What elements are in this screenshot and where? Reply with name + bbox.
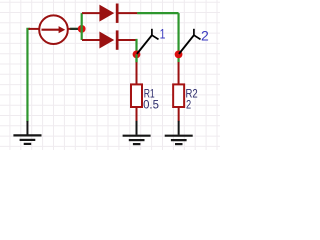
switch S1 bbox=[137, 29, 159, 54]
resistor R2 bbox=[173, 84, 184, 107]
R1 pin bottom bbox=[136, 107, 138, 121]
wire node C to R2 bbox=[178, 62, 180, 84]
node B junction bbox=[133, 51, 141, 59]
svg-text:2: 2 bbox=[201, 28, 209, 44]
ground G1 bbox=[13, 121, 41, 144]
R2 pin bottom bbox=[178, 107, 180, 121]
svg-text:2: 2 bbox=[186, 99, 191, 111]
diode D1 bbox=[82, 4, 137, 23]
wire left vertical green bbox=[27, 29, 30, 122]
wire right vertical green bbox=[177, 13, 179, 62]
svg-text:1: 1 bbox=[160, 26, 166, 42]
wire source to node A bbox=[70, 28, 82, 30]
node C junction bbox=[175, 51, 183, 59]
wire top rail green bbox=[137, 12, 178, 14]
ground G2 bbox=[123, 121, 151, 144]
svg-text:0.5: 0.5 bbox=[143, 99, 159, 111]
switch S2 bbox=[179, 29, 201, 54]
wire D2 cathode to node B bbox=[136, 40, 137, 62]
wire node A up bbox=[81, 13, 83, 29]
resistor R1 bbox=[131, 84, 142, 107]
node A junction bbox=[78, 25, 86, 33]
ground G3 bbox=[165, 121, 193, 144]
current source I1 bbox=[39, 15, 68, 44]
wire node A down bbox=[81, 29, 83, 40]
wire node B to R1 bbox=[135, 54, 137, 62]
wire red stub to source bbox=[28, 28, 39, 30]
diode D2 bbox=[82, 30, 136, 49]
